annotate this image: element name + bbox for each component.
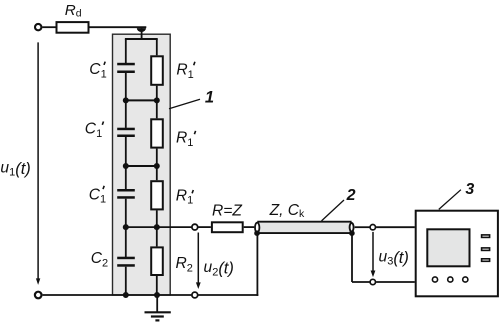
junction dot (123, 163, 129, 169)
terminal (top-left input) (35, 24, 41, 30)
capacitor C2 plates (117, 257, 135, 260)
prime mark C1' s1 (104, 62, 105, 65)
prime mark R1' s2 (194, 131, 195, 134)
leader line for label 3 (439, 190, 461, 210)
coaxial cable tube (257, 222, 351, 232)
label Z, Ck (269, 202, 305, 220)
wire: R1' to node rail 1 (156, 86, 158, 101)
svg-text:1: 1 (205, 89, 214, 107)
terminal u3 bottom (370, 279, 375, 284)
junction dot (123, 292, 129, 298)
wire: Rd to column top (90, 26, 147, 28)
switch plate 1 (482, 235, 490, 238)
stage 3: wire to resistor R1' (156, 166, 158, 180)
label R2 (176, 255, 193, 274)
junction dot under cable left end (254, 230, 260, 236)
ground symbol (156, 295, 158, 312)
svg-text:R=Z: R=Z (212, 203, 242, 220)
knob 1 (432, 277, 437, 282)
label 1 (divider) (205, 89, 214, 107)
terminal u2 bottom (192, 292, 198, 298)
label u1(t) (0, 159, 30, 178)
wire: u3 bottom terminal to oscilloscope (376, 281, 415, 283)
terminal u2 top (192, 224, 198, 230)
label C2 (91, 250, 108, 269)
wire: C2 to bottom rail (125, 267, 127, 295)
capacitor C1' (stage 2) plates (117, 128, 135, 131)
knob 2 (448, 277, 453, 282)
label u3(t) (379, 248, 409, 267)
stage 2: wire to resistor R1' (156, 100, 158, 118)
wire: cable left end down to ground rail (256, 233, 258, 296)
resistor R=Z (212, 222, 243, 232)
wire: terminal to Rd (42, 26, 55, 28)
wire: dot down to top rail (141, 28, 143, 39)
knob 3 (463, 277, 468, 282)
oscilloscope body (416, 211, 498, 297)
junction dot (154, 97, 160, 103)
wire: cable right to u3 top terminal (355, 226, 370, 228)
stage 2: wire to capacitor C1' (125, 100, 127, 128)
node rail 2 (126, 165, 157, 167)
terminal u3 top (370, 225, 375, 230)
junction dot (154, 163, 160, 169)
capacitor C1' (stage 1) plates (117, 63, 135, 66)
label R1' (stage 1) (176, 62, 193, 81)
wire: down to u3 bottom terminal (352, 281, 370, 283)
terminal (bottom-left) (35, 292, 42, 299)
stage 1: wire rail to resistor R1' (156, 39, 158, 56)
prime mark R1' s3 (192, 190, 193, 193)
label 3 (oscilloscope) (465, 181, 474, 198)
resistor R2 (151, 247, 163, 275)
u3 measuring arrow (372, 232, 374, 272)
node rail 1 (126, 99, 157, 101)
wire: cable right end down (351, 233, 353, 282)
resistor R1' (stage 3) (151, 181, 163, 209)
junction dot (123, 97, 129, 103)
wire: C1' to node rail 2 (125, 137, 127, 166)
leader line for label 2 (322, 200, 345, 221)
label Rd (65, 2, 82, 19)
label u2(t) (204, 259, 234, 278)
label 2 (cable) (346, 187, 356, 204)
divider column block (shaded) (113, 34, 171, 295)
svg-text:2: 2 (346, 187, 356, 204)
label R=Z (212, 203, 242, 220)
u2 measuring arrow (197, 233, 199, 284)
junction dot (123, 224, 129, 230)
stage 1: wire rail to capacitor C1' (125, 39, 127, 63)
wire: R2 to bottom rail (156, 276, 158, 295)
stage 4: wire to capacitor C2 (125, 227, 127, 257)
top rail of stage 1 (125, 38, 158, 40)
wire: u3 top terminal to oscilloscope (376, 226, 415, 228)
resistor R1' (stage 2) (151, 119, 163, 147)
svg-text:u3(t): u3(t) (379, 248, 409, 267)
label C1' (stage 1) (89, 61, 106, 80)
label R1' (stage 2) (176, 130, 193, 149)
node rail 3 (extends right to R=Z) (126, 226, 192, 228)
cable right end ellipse (350, 223, 354, 232)
junction dot under cable right end (349, 230, 355, 236)
svg-text:3: 3 (465, 181, 474, 198)
svg-text:u2(t): u2(t) (204, 259, 234, 278)
wire: C1' to node rail 3 (125, 199, 127, 227)
resistor R1' (stage 1) (151, 56, 163, 85)
capacitor C1' (stage 3) plates (117, 189, 135, 192)
label C1' (stage 3) (89, 186, 106, 205)
svg-text:u1(t): u1(t) (0, 159, 30, 178)
wire: R1' to node rail 3 (156, 210, 158, 227)
prime mark R1' s1 (194, 62, 195, 65)
stage 4: wire to resistor R2 (156, 227, 158, 246)
wire: R1' to node rail 2 (156, 149, 158, 166)
prime mark C1' s2 (102, 122, 103, 125)
leader line for label 1 (169, 99, 200, 109)
switch plate 2 (482, 248, 490, 251)
junction half-dot at column top (137, 28, 146, 32)
prime mark C1' s3 (103, 186, 104, 189)
bottom rail continues to cable drop (198, 294, 258, 296)
label R1' (stage 3) (176, 187, 193, 206)
wire: u2 terminal to R=Z (198, 226, 211, 228)
wire: C1' to node rail 1 (125, 73, 127, 100)
label C1' (stage 2) (85, 121, 102, 140)
stage 3: wire to capacitor C1' (125, 166, 127, 189)
junction dot (154, 224, 160, 230)
u1 measuring arrow (37, 42, 39, 279)
resistor Rd (57, 22, 89, 33)
oscilloscope screen (427, 229, 469, 266)
switch plate 3 (482, 259, 490, 262)
cable left end ellipse (255, 223, 259, 233)
bottom rail (ground rail) (43, 294, 192, 296)
wire: R=Z to cable (244, 226, 255, 228)
junction dot (154, 292, 160, 298)
